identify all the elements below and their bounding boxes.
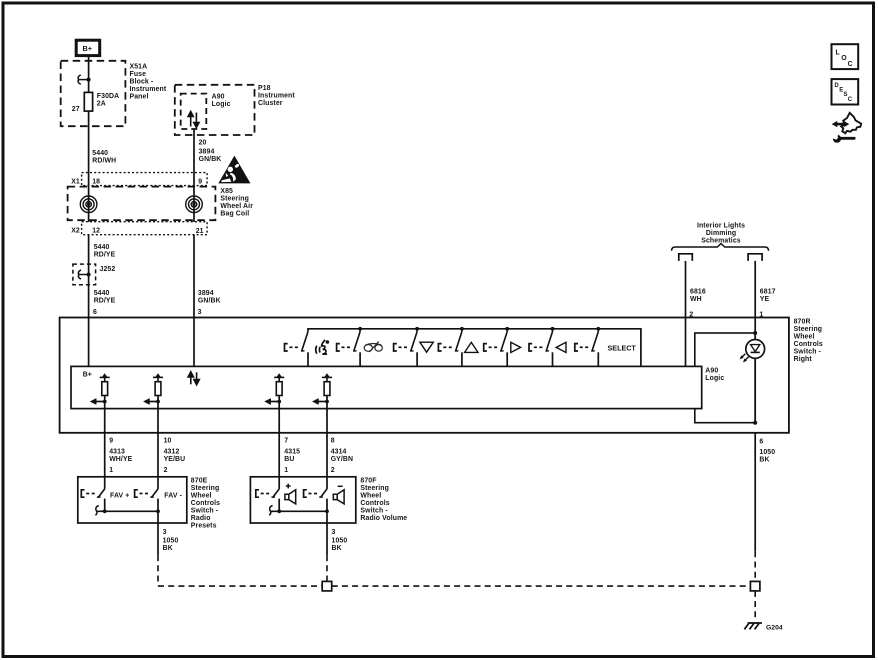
- connector X2 dashed band: [82, 222, 208, 235]
- svg-text:18: 18: [92, 178, 100, 185]
- svg-text:6: 6: [93, 309, 97, 316]
- svg-text:7: 7: [284, 438, 288, 445]
- svg-text:Logic: Logic: [705, 375, 724, 382]
- svg-text:4314: 4314: [331, 448, 347, 455]
- svg-text:Cluster: Cluster: [258, 100, 283, 107]
- svg-text:X2: X2: [71, 227, 80, 234]
- svg-text:5440: 5440: [94, 244, 110, 251]
- svg-text:1050: 1050: [163, 537, 179, 544]
- wire through left coil: [88, 186, 90, 222]
- switch SW6 (seek-left): [529, 327, 554, 367]
- svg-text:Dimming: Dimming: [706, 230, 736, 237]
- wire X2 pin 12 to switch pin 6: [88, 235, 90, 318]
- splice J252 dashed box: [73, 264, 96, 285]
- svg-text:27: 27: [72, 106, 80, 113]
- wire label 5440 RD/YE upper: [94, 244, 116, 259]
- svg-text:Steering: Steering: [360, 485, 389, 492]
- svg-text:BK: BK: [759, 456, 769, 463]
- wire pin 3 inside box to logic: [193, 318, 195, 367]
- svg-text:9: 9: [198, 178, 202, 185]
- fuse block X51A dashed box: [61, 61, 126, 126]
- svg-text:L: L: [836, 49, 840, 56]
- labels for wire 4315: [284, 438, 300, 474]
- svg-text:Instrument: Instrument: [130, 86, 167, 93]
- svg-text:X51A: X51A: [130, 63, 148, 70]
- dashed ground wire from 870F: [326, 555, 328, 581]
- svg-text:BK: BK: [163, 545, 173, 552]
- switch SW7 (select): [575, 327, 600, 367]
- labels for wire 4313: [109, 438, 132, 474]
- switch volume up (870F): [256, 489, 281, 513]
- splice junction dot: [87, 273, 91, 277]
- svg-text:4312: 4312: [164, 448, 180, 455]
- wire 1050 BK from pin 6 solid: [754, 433, 756, 551]
- svg-text:1: 1: [109, 467, 113, 474]
- 870E pin 3 exit wire: [157, 511, 159, 555]
- LED box junction dot top: [753, 331, 757, 335]
- svg-text:SELECT: SELECT: [608, 344, 637, 353]
- svg-text:1050: 1050: [332, 537, 348, 544]
- off-page connector left: [679, 254, 693, 261]
- svg-text:20: 20: [199, 139, 207, 146]
- A90 logic box (switch): [71, 366, 702, 408]
- wire label 6816 WH: [690, 289, 706, 304]
- svg-text:Wheel: Wheel: [360, 492, 381, 499]
- splice square S1: [322, 581, 332, 591]
- resistor load R4 with output arrow: [313, 374, 333, 433]
- coil spiral right: [186, 196, 203, 213]
- 870F pin 3 exit wire: [326, 511, 328, 555]
- svg-text:Right: Right: [794, 356, 813, 363]
- nav icon LOC box: [832, 44, 859, 69]
- svg-text:B+: B+: [83, 44, 93, 53]
- svg-text:Presets: Presets: [191, 522, 217, 529]
- wire 6817 YE to pin 1: [754, 261, 756, 333]
- svg-text:A90: A90: [705, 368, 718, 375]
- speaker icon plus: [285, 490, 296, 504]
- labels for wire 4312: [164, 438, 186, 474]
- svg-text:3894: 3894: [198, 290, 214, 297]
- svg-text:Bag Coil: Bag Coil: [220, 210, 249, 217]
- svg-text:Controls: Controls: [794, 341, 823, 348]
- X85 steering wheel air bag coil dashed box: [68, 187, 216, 221]
- A90 logic dashed box (cluster): [181, 94, 207, 129]
- svg-text:P18: P18: [258, 85, 271, 92]
- serial data arrows (switch logic): [188, 372, 199, 385]
- brace under title: [672, 244, 769, 251]
- nav icon DESC box: [832, 79, 859, 104]
- switch assembly 870F radio volume box: [250, 477, 355, 523]
- P18 label: [258, 85, 295, 107]
- wire cluster pin 20 to X1 pin 9: [193, 129, 195, 187]
- wire label 3894 GN/BK lower: [198, 290, 221, 305]
- svg-text:Block -: Block -: [130, 78, 154, 85]
- svg-text:Steering: Steering: [794, 326, 823, 333]
- svg-text:4313: 4313: [109, 448, 125, 455]
- svg-text:3: 3: [198, 309, 202, 316]
- svg-text:RD/YE: RD/YE: [94, 298, 116, 305]
- svg-text:Controls: Controls: [191, 500, 220, 507]
- svg-text:WH/YE: WH/YE: [109, 456, 132, 463]
- wire 4313 WH/YE pin 9: [104, 433, 106, 489]
- icon volume down triangle: [420, 342, 433, 352]
- svg-text:YE: YE: [760, 296, 770, 303]
- icon phone handset: [364, 342, 382, 352]
- switch assembly 870E radio presets box: [78, 477, 187, 523]
- 870R steering wheel controls switch right outer box: [60, 318, 789, 433]
- volume plus sign: [286, 484, 291, 489]
- svg-text:C: C: [848, 97, 853, 103]
- svg-text:5440: 5440: [92, 150, 108, 157]
- svg-text:Steering: Steering: [220, 195, 249, 202]
- svg-text:FAV +: FAV +: [110, 492, 129, 499]
- X85 label: [220, 188, 253, 218]
- icon seek right triangle: [511, 342, 521, 352]
- switch SW2 (phone): [337, 327, 362, 367]
- fuse value label: [97, 93, 119, 108]
- X51A label: [130, 63, 167, 100]
- speaker icon minus: [333, 490, 344, 504]
- svg-text:O: O: [841, 55, 847, 62]
- svg-text:870E: 870E: [191, 477, 208, 484]
- nav icon schematic arrows: [832, 113, 862, 134]
- off-page connector right: [748, 254, 762, 261]
- svg-text:10: 10: [164, 438, 172, 445]
- splice square S2: [750, 581, 760, 591]
- svg-text:6816: 6816: [690, 289, 706, 296]
- interior lights dimming schematics title: [697, 223, 745, 245]
- svg-text:X1: X1: [71, 178, 80, 185]
- svg-text:12: 12: [92, 227, 100, 234]
- svg-text:WH: WH: [690, 296, 702, 303]
- switch row sub-box (top and right edges): [308, 329, 641, 367]
- LED box junction dot bottom: [753, 421, 757, 425]
- resistor load R1 with output arrow: [90, 374, 110, 433]
- svg-text:GN/BK: GN/BK: [199, 156, 222, 163]
- ground symbol G204: [744, 623, 762, 629]
- svg-text:Interior Lights: Interior Lights: [697, 223, 745, 230]
- switch FAV+ (870E): [81, 489, 106, 513]
- wire label 1050 BK (right): [759, 449, 775, 464]
- clip tap symbol inside fuse block: [78, 75, 89, 84]
- wire through right coil: [193, 186, 195, 222]
- LED indicator: [740, 333, 765, 423]
- svg-text:870R: 870R: [794, 318, 811, 325]
- nav icon wrench: [830, 132, 854, 143]
- icon volume up triangle: [465, 342, 478, 352]
- svg-text:G204: G204: [766, 625, 783, 632]
- junction dot on clip: [87, 78, 91, 82]
- wire pin 6 inside box to B+: [88, 318, 90, 367]
- A90 logic label (cluster): [212, 94, 231, 109]
- svg-text:BU: BU: [284, 456, 294, 463]
- svg-text:YE/BU: YE/BU: [164, 456, 186, 463]
- 870F ground wire labels: [332, 529, 348, 552]
- icon seek left triangle: [556, 342, 566, 352]
- svg-text:Switch -: Switch -: [360, 507, 388, 514]
- svg-text:Steering: Steering: [191, 485, 220, 492]
- svg-text:BK: BK: [332, 545, 342, 552]
- 870E ground wire labels: [163, 529, 179, 552]
- splice clip symbol: [78, 270, 88, 279]
- switch SW1 (voice): [285, 332, 309, 367]
- wire label 5440 RD/YE lower: [94, 290, 116, 305]
- wire 4312 YE/BU pin 10: [157, 433, 159, 489]
- svg-text:3894: 3894: [199, 149, 215, 156]
- svg-text:Wheel: Wheel: [191, 492, 212, 499]
- serial data arrows (cluster): [188, 112, 199, 128]
- svg-text:X85: X85: [220, 188, 233, 195]
- 870F label: [360, 477, 407, 522]
- wire B+ to fuse F30DA: [88, 56, 90, 93]
- 870E common bus: [97, 510, 158, 512]
- dashed ground wire from 870E: [157, 555, 159, 586]
- svg-text:Switch -: Switch -: [191, 507, 219, 514]
- 870E label: [191, 477, 220, 529]
- icon voice recognition: [316, 340, 330, 354]
- LED dimming sub-box: [695, 333, 755, 423]
- switch FAV- (870E): [135, 489, 160, 513]
- switch volume down (870F): [304, 489, 329, 513]
- svg-text:1: 1: [284, 467, 288, 474]
- A90 logic label (switch): [705, 368, 724, 383]
- svg-text:Controls: Controls: [360, 500, 389, 507]
- svg-text:Instrument: Instrument: [258, 93, 295, 100]
- svg-text:Radio: Radio: [191, 515, 211, 522]
- 870F common bus: [271, 510, 327, 512]
- dashed ground bus left segment: [158, 585, 322, 587]
- 870F pivot hook: [269, 506, 272, 516]
- svg-text:A90: A90: [212, 94, 225, 101]
- labels for wire 4314: [331, 438, 353, 474]
- svg-text:21: 21: [196, 228, 204, 235]
- dashed ground bus right segment: [332, 585, 751, 587]
- battery feed B+ terminal: [76, 40, 100, 55]
- svg-text:3: 3: [332, 529, 336, 536]
- wire label 3894 GN/BK upper: [199, 149, 222, 164]
- svg-text:Radio Volume: Radio Volume: [360, 515, 407, 522]
- svg-text:6: 6: [759, 438, 763, 445]
- airbag warning triangle: [219, 157, 249, 183]
- svg-text:2: 2: [164, 467, 168, 474]
- svg-text:RD/WH: RD/WH: [92, 158, 116, 165]
- svg-text:FAV -: FAV -: [164, 492, 182, 499]
- instrument cluster P18 dashed box: [175, 85, 255, 135]
- coil spiral left: [80, 196, 97, 213]
- svg-text:Logic: Logic: [212, 101, 231, 108]
- wire 4314 GY/BN pin 8: [326, 433, 328, 489]
- svg-text:Switch -: Switch -: [794, 348, 822, 355]
- svg-text:9: 9: [109, 438, 113, 445]
- svg-text:Wheel: Wheel: [794, 333, 815, 340]
- 870E pivot hook: [95, 506, 98, 516]
- svg-text:Panel: Panel: [130, 93, 149, 100]
- resistor load R3 with output arrow: [265, 374, 285, 433]
- svg-text:8: 8: [331, 438, 335, 445]
- dashed wire to ground G204: [754, 591, 756, 621]
- svg-text:RD/YE: RD/YE: [94, 251, 116, 258]
- 870R label: [794, 318, 823, 363]
- switch SW5 (seek-right): [484, 327, 509, 367]
- svg-text:3: 3: [163, 529, 167, 536]
- svg-text:GY/BN: GY/BN: [331, 456, 353, 463]
- wire label 5440 RD/WH: [92, 150, 116, 165]
- wire label 6817 YE: [760, 289, 776, 304]
- svg-text:6817: 6817: [760, 289, 776, 296]
- wire 6816 WH to pin 2: [685, 261, 687, 318]
- wire X2 pin 21 to switch pin 3: [193, 235, 195, 318]
- svg-text:2: 2: [331, 467, 335, 474]
- wire fuse to X1 pin 18: [88, 111, 90, 186]
- svg-text:C: C: [848, 61, 853, 68]
- svg-text:2A: 2A: [97, 101, 106, 108]
- volume minus sign: [338, 485, 343, 487]
- switch SW3 (volume-down): [394, 327, 419, 367]
- svg-text:Wheel Air: Wheel Air: [220, 203, 253, 210]
- connector X1 dashed band: [82, 173, 208, 186]
- svg-text:B+: B+: [83, 372, 92, 379]
- svg-text:1050: 1050: [759, 449, 775, 456]
- svg-text:5440: 5440: [94, 290, 110, 297]
- wire 4315 BU pin 7: [278, 433, 280, 489]
- wire pin 2 inside box to logic: [685, 318, 687, 367]
- resistor load R2 with output arrow: [144, 374, 164, 433]
- switch SW4 (volume-up): [438, 327, 463, 367]
- svg-text:GN/BK: GN/BK: [198, 298, 221, 305]
- svg-text:F30DA: F30DA: [97, 93, 119, 100]
- svg-text:Fuse: Fuse: [130, 71, 147, 78]
- fuse F30DA 2A: [84, 92, 92, 111]
- svg-text:870F: 870F: [360, 477, 376, 484]
- svg-text:4315: 4315: [284, 448, 300, 455]
- wire 1050 BK dashed to splice: [754, 551, 756, 581]
- svg-text:J252: J252: [100, 266, 116, 273]
